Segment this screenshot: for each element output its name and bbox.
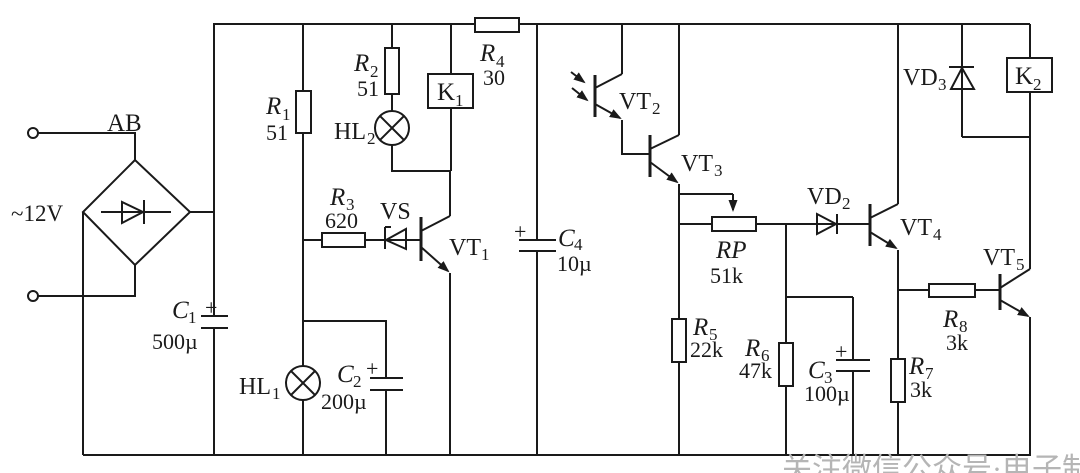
svg-text:RP: RP (715, 237, 747, 264)
svg-text:R: R (329, 184, 345, 211)
svg-text:C: C (337, 361, 354, 388)
svg-text:3: 3 (938, 75, 947, 94)
svg-text:2: 2 (367, 129, 376, 148)
svg-text:200µ: 200µ (321, 389, 367, 414)
svg-text:+: + (205, 295, 217, 320)
svg-text:K: K (437, 79, 455, 106)
svg-text:R: R (265, 93, 281, 120)
svg-text:51k: 51k (710, 263, 743, 288)
svg-text:VT: VT (619, 89, 651, 115)
svg-text:C: C (808, 357, 825, 384)
svg-text:C: C (558, 225, 575, 252)
svg-text:2: 2 (652, 99, 661, 118)
svg-text:K: K (1015, 63, 1033, 90)
svg-text:1: 1 (455, 91, 464, 110)
svg-text:HL: HL (334, 119, 366, 145)
svg-text:VD: VD (807, 184, 842, 210)
svg-text:100µ: 100µ (804, 381, 850, 406)
svg-text:VT: VT (983, 245, 1015, 271)
svg-text:30: 30 (483, 65, 505, 90)
svg-text:+: + (514, 219, 526, 244)
svg-text:VS: VS (380, 199, 411, 225)
svg-text:HL: HL (239, 374, 271, 400)
svg-text:3k: 3k (946, 330, 968, 355)
svg-text:2: 2 (1033, 75, 1042, 94)
svg-text:R: R (942, 306, 958, 333)
svg-text:5: 5 (1016, 255, 1025, 274)
svg-text:500µ: 500µ (152, 329, 198, 354)
svg-text:+: + (835, 339, 847, 364)
svg-text:R: R (479, 40, 495, 67)
svg-text:AB: AB (107, 110, 142, 137)
svg-text:C: C (172, 297, 189, 324)
svg-text:1: 1 (481, 245, 490, 264)
svg-text:51: 51 (266, 120, 288, 145)
svg-text:1: 1 (188, 308, 197, 327)
svg-text:关注微信公众号·电子制作: 关注微信公众号·电子制作 (782, 453, 1080, 473)
svg-text:51: 51 (357, 76, 379, 101)
svg-text:2: 2 (842, 194, 851, 213)
svg-text:R: R (353, 50, 369, 77)
svg-text:VT: VT (900, 215, 932, 241)
svg-text:10µ: 10µ (557, 251, 592, 276)
svg-text:VT: VT (449, 235, 481, 261)
svg-text:~12V: ~12V (11, 201, 63, 226)
svg-text:3: 3 (714, 161, 723, 180)
svg-text:R: R (908, 353, 924, 380)
svg-text:47k: 47k (739, 358, 772, 383)
svg-text:VT: VT (681, 151, 713, 177)
svg-text:VD: VD (903, 65, 938, 91)
svg-text:4: 4 (933, 225, 942, 244)
svg-text:1: 1 (272, 384, 281, 403)
svg-text:22k: 22k (690, 337, 723, 362)
svg-text:+: + (366, 356, 378, 381)
svg-text:620: 620 (325, 208, 358, 233)
svg-text:3k: 3k (910, 377, 932, 402)
